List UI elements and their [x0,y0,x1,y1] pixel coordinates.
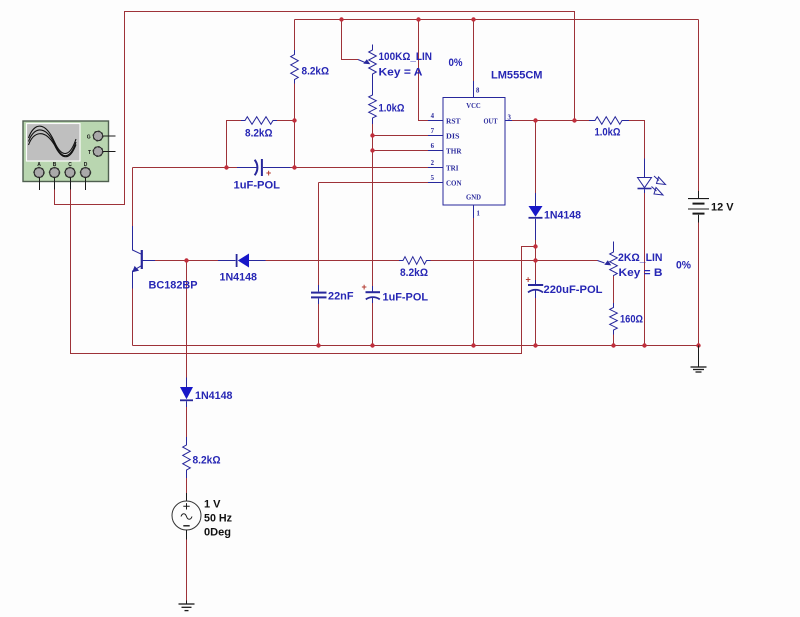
wire C4 bottom [535,298,537,346]
svg-text:D: D [84,162,88,168]
wire R6 to source [186,478,188,493]
U1 pin 7 stub [428,135,443,137]
svg-text:160Ω: 160Ω [620,314,643,326]
wire R1 top [294,20,296,51]
svg-text:6: 6 [431,143,435,150]
svg-text:8.2kΩ: 8.2kΩ [400,267,428,279]
wire scope C channel to cap node [71,190,536,354]
svg-text:Key = B: Key = B [619,267,663,279]
svg-text:OUT: OUT [484,118,498,126]
wire CON pin 5 [319,182,429,184]
wire C2 branch top [318,183,320,286]
scope terminal leads [40,136,116,190]
wire RST pin 4 [419,20,429,121]
svg-text:CON: CON [446,180,462,188]
wire D2 to C4 [535,240,537,280]
svg-text:4: 4 [431,113,435,120]
wire OUT row left [512,120,589,122]
svg-text:0Deg: 0Deg [204,527,231,539]
svg-text:LM555CM: LM555CM [491,70,543,82]
svg-text:1N4148: 1N4148 [544,210,581,222]
resistor R1 8.2k vertical [291,50,299,84]
resistor R6 8.2k vertical [183,437,191,478]
wire R2 row [227,121,242,168]
svg-text:2: 2 [431,160,435,167]
capacitor C4 220uF-POL [535,280,537,284]
wire GND pin 1 down [473,218,475,346]
PLACEHOLDER-COMPONENTS [23,121,116,190]
resistor R7 160 ohm vertical [610,303,618,335]
AC source V1 [186,493,188,502]
svg-text:220uF-POL: 220uF-POL [544,284,603,296]
wire base row right [431,260,598,262]
U1 pin 1 stub [473,205,475,218]
wire THR pin 6 [373,150,429,152]
LED1 [644,159,646,178]
U1 pin 2 stub [428,167,443,169]
diode D3 1N4148 vertical [186,378,188,388]
svg-text:+: + [362,282,367,292]
svg-text:8.2kΩ: 8.2kΩ [193,455,221,467]
wire base row mid [266,260,400,262]
svg-text:G: G [87,135,91,141]
svg-text:5: 5 [431,175,435,182]
resistor R3 1.0k horizontal [589,117,629,125]
svg-text:THR: THR [446,148,462,156]
svg-text:DIS: DIS [446,133,460,141]
PLACEHOLDER-SCOPE [149,51,735,539]
svg-text:B: B [53,162,57,168]
oscilloscope screen [27,124,81,162]
svg-text:100KΩ_LIN: 100KΩ_LIN [379,51,433,63]
knob A [34,168,44,178]
capacitor C2 22nF [318,285,320,292]
svg-text:12 V: 12 V [711,202,734,214]
U1 pin 5 stub [428,182,443,184]
svg-text:0%: 0% [449,57,463,69]
wire battery top [698,20,700,192]
wire D2 top [535,121,537,194]
svg-text:RST: RST [446,118,461,126]
potentiometer P2 wiper arrow [598,261,605,264]
wire bottom rail [133,345,699,347]
battery V2 12V [698,191,700,198]
ground G1 [186,601,188,604]
wire DIS pin 7 [373,135,429,137]
knob T [93,147,102,156]
svg-text:8: 8 [476,88,480,95]
wire scope B channel to OUT node [55,12,575,205]
wire cap C1 right to TRI pin 2 [291,167,429,169]
svg-text:1: 1 [477,211,481,218]
oscilloscope XSC1 body [23,121,109,182]
knob D [81,168,91,178]
wire R4 to C3 [372,124,374,286]
knob C [65,168,75,178]
wire OUT row right + LED top [629,121,645,159]
svg-text:22nF: 22nF [328,291,354,303]
svg-text:1uF-POL: 1uF-POL [383,292,429,304]
svg-text:+: + [526,275,531,285]
capacitor C1 1uF-POL series [237,167,257,169]
wire R7 to bottom rail [613,335,615,346]
oscilloscope trace curves [29,126,77,153]
junction dots [339,17,343,21]
svg-text:1.0kΩ: 1.0kΩ [595,127,621,139]
wire collector branch [132,168,134,227]
svg-text:+: + [266,168,271,178]
svg-text:1.0kΩ: 1.0kΩ [379,103,405,115]
U1 pin 4 stub [428,120,443,122]
potentiometer P1 wiper arrow [358,60,365,63]
wire VCC pin 8 [473,20,475,82]
capacitor C3 1uF-POL [372,286,374,292]
wire VCC top rail [295,19,699,21]
U1 pin 6 stub [428,150,443,152]
resistor R2 8.2k horizontal [241,117,277,125]
wire base node down to D3 [186,261,188,378]
wire R1 bottom to cap node [294,84,296,168]
op-amp/timer U1 LM555CM box [443,98,505,206]
wire D3 to R6 [186,407,188,437]
LED1 emission arrows [654,176,659,181]
svg-text:2KΩ_LIN: 2KΩ_LIN [618,252,663,264]
U1 pin 8 stub [473,81,475,98]
U1 pin 3 stub [505,120,512,122]
wire LED bottom [644,193,646,346]
svg-text:VCC: VCC [466,102,481,110]
resistor R5 8.2k horizontal [399,257,431,265]
svg-text:BC182BP: BC182BP [149,280,198,292]
potentiometer P1 100K_LIN [369,45,377,89]
wire P2 bottom to R7 [613,276,615,303]
ground G2 [698,346,700,367]
wire source to ground G1 [186,540,188,601]
svg-text:Key = A: Key = A [379,67,423,79]
knob G [93,131,102,140]
wire pot A wiper feed [342,20,359,60]
wire base row left [155,260,218,262]
knob B [50,168,60,178]
svg-text:C: C [68,162,72,168]
wire C2 bottom [318,304,320,346]
svg-text:T: T [88,150,91,156]
diode D1 1N4148 horizontal [218,260,236,262]
resistor R4 1.0k vertical [369,88,377,124]
svg-text:50 Hz: 50 Hz [204,513,232,525]
svg-text:1 V: 1 V [204,499,221,511]
wire emitter down [132,289,134,346]
diode D2 1N4148 vertical [535,193,537,206]
wire battery bottom [698,223,700,346]
svg-text:8.2kΩ: 8.2kΩ [245,128,273,140]
svg-text:7: 7 [431,128,435,135]
wire cap C1 left [133,167,238,169]
svg-text:1uF-POL: 1uF-POL [234,180,281,192]
transistor Q1 BC182BP [133,226,142,254]
svg-text:1N4148: 1N4148 [220,272,258,284]
svg-text:GND: GND [466,194,481,202]
svg-text:1N4148: 1N4148 [195,390,233,402]
svg-text:3: 3 [508,115,512,122]
wire C3 bottom [372,303,374,346]
wire R2 to vertical [277,120,295,122]
svg-text:A: A [37,162,41,168]
svg-text:8.2kΩ: 8.2kΩ [302,66,330,78]
scope labels [37,135,91,168]
svg-text:0%: 0% [676,260,691,272]
potentiometer P2 2K_LIN [610,242,618,277]
svg-text:TRI: TRI [446,165,459,173]
